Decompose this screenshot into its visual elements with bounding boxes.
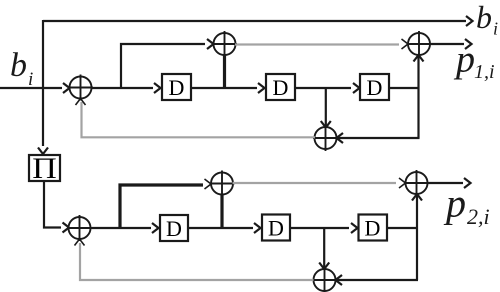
wire: bold tap from D1 output up into A2 [223, 54, 226, 89]
wire: arrowhead into A3 [402, 39, 409, 49]
wire: D4 to D5 [188, 223, 261, 233]
node label b_i (input) [10, 47, 33, 90]
node label p_1,i [453, 39, 495, 84]
svg-text:Π: Π [32, 152, 57, 185]
delay register D4 (encoder 2) [160, 215, 188, 241]
wire: arrowhead into A6 [205, 179, 212, 189]
interleaver PI [29, 152, 60, 185]
wire: feedback lower horizontal into A8 (right side) [336, 275, 419, 285]
wire: D6 output to right vertical [387, 227, 418, 229]
wire: A5 to D4 [90, 223, 159, 233]
svg-text:D: D [166, 216, 182, 241]
svg-text:i: i [493, 19, 498, 39]
delay register D2 (encoder 1) [266, 74, 295, 100]
wire: gray feedback return to A1 [82, 102, 316, 137]
svg-text:b: b [476, 0, 492, 35]
wire: D1 to D2 [191, 83, 265, 93]
svg-text:D: D [268, 216, 284, 241]
wire: tap after D2 down into A4 (top) [321, 88, 331, 128]
wire: parity output p2 [427, 178, 471, 188]
wire: gray link A2 to A3 [235, 43, 399, 45]
svg-text:i: i [28, 69, 33, 90]
wire: left vertical from b_i line down to interleaver [38, 20, 48, 154]
wire: arrowhead into A7 [399, 178, 406, 188]
svg-text:D: D [367, 75, 383, 100]
delay register D3 (encoder 1) [360, 74, 389, 100]
svg-text:p: p [453, 39, 475, 81]
svg-text:2,i: 2,i [467, 204, 490, 229]
xor adder A5 (encoder 2 input) [67, 215, 92, 241]
xor adder A6 (encoder 2 parity) [210, 171, 235, 197]
node label b_i (output, top right) [476, 0, 498, 39]
wire: arrowhead up into A5 bottom [75, 239, 85, 246]
wire: interleaver output down and right into encoder 2 [44, 181, 69, 233]
wire: bold tap from D4 output up into A6 [220, 194, 223, 229]
xor adder A8 (encoder 2 feedback) [312, 267, 337, 292]
wire: feedforward tap after A1 up to adder A2 [121, 39, 214, 88]
xor adder A1 (encoder 1 input) [68, 75, 93, 101]
wire: D5 to D6 [290, 223, 358, 233]
svg-text:b: b [10, 47, 27, 84]
wire: arrowhead up into A1 bottom [76, 99, 86, 106]
xor adder A4 (encoder 1 feedback) [313, 125, 338, 151]
wire: feedback lower horizontal into A4 (right side) [337, 133, 420, 143]
delay register D6 (encoder 2) [359, 215, 388, 241]
wire: D2 to D3 [295, 83, 360, 93]
wire: gray link A6 to A7 [233, 182, 397, 184]
wire: tap after D5 down into A8 (top) [319, 228, 329, 269]
svg-text:p: p [443, 181, 466, 226]
svg-text:D: D [365, 216, 381, 241]
wire: systematic output top line b_i [43, 16, 473, 26]
wire: input line b_i into encoder 1 [0, 83, 70, 93]
xor adder A7 (encoder 2 output) [404, 170, 429, 196]
wire: bold feedforward tap after A5 up to adder A6 [120, 185, 203, 228]
wire: right vertical D3 output up to A3 and down to A4 [414, 55, 424, 139]
wire: gray feedback return to A5 [80, 243, 314, 280]
wire: A1 to D1 [91, 83, 161, 93]
wire: D3 output to right vertical [389, 87, 420, 89]
xor adder A3 (encoder 1 output) [407, 31, 432, 57]
wire: right vertical D6 output up to A7 and down to A8 [412, 194, 422, 280]
delay register D5 (encoder 2) [262, 215, 290, 241]
svg-text:D: D [273, 75, 289, 100]
delay register D1 (encoder 1) [162, 74, 191, 100]
wire: parity output p1 [430, 39, 472, 49]
xor adder A2 (encoder 1 parity) [212, 31, 237, 57]
svg-text:1,i: 1,i [474, 61, 495, 83]
svg-text:D: D [169, 75, 185, 100]
node label p_2,i [443, 181, 490, 230]
